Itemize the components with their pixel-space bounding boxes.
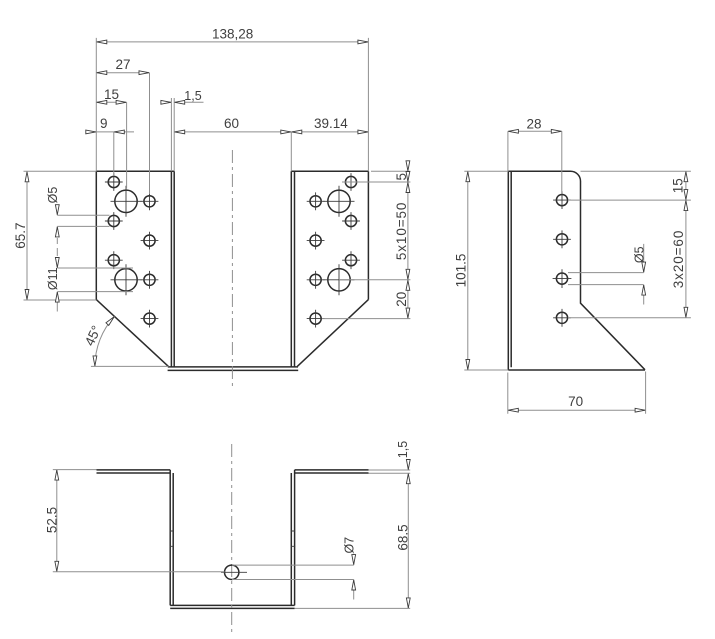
dimension 60 channel width [174, 116, 291, 134]
hole L6 [108, 255, 119, 266]
side hole 2 [556, 234, 567, 245]
svg-text:9: 9 [100, 116, 108, 131]
hole L5 [144, 235, 155, 246]
svg-text:5: 5 [394, 173, 409, 181]
dimension 68.5 [295, 473, 411, 608]
dimension 27 [96, 57, 149, 194]
bottom view centerline [231, 444, 233, 633]
bottom edge [508, 369, 645, 371]
dimension 138,28 overall width [96, 26, 368, 171]
svg-text:60: 60 [224, 116, 239, 131]
hole L4 [108, 215, 119, 226]
side view: hanger side flange [508, 171, 645, 370]
dimension 52.5 [44, 470, 224, 572]
left plate top edge [96, 170, 174, 172]
hole L8 [144, 274, 155, 285]
hole R6 [345, 255, 356, 266]
back plate outer line [507, 171, 509, 370]
front view: joist hanger face [96, 150, 368, 389]
right wall outer line [294, 470, 296, 606]
svg-text:1,5: 1,5 [396, 441, 410, 458]
channel bottom inner line [170, 607, 294, 609]
right flange bottom line [295, 472, 369, 474]
dimension 39.14 [291, 116, 368, 171]
left plate 45deg chamfer edge [96, 300, 168, 367]
hole R9 [310, 313, 321, 324]
right plate right edge [367, 171, 369, 299]
svg-text:Ø5: Ø5 [633, 246, 647, 263]
diameter label O7 [232, 537, 357, 600]
right wall inner line [290, 473, 292, 605]
hole L2 big [115, 190, 137, 212]
right channel wall outer line [294, 171, 296, 367]
left channel wall outer line [170, 171, 172, 367]
svg-text:70: 70 [568, 394, 583, 409]
left wall inner line [172, 473, 174, 605]
channel bottom outer line [170, 604, 294, 606]
side hole 4 [556, 312, 567, 323]
front view holes [105, 173, 360, 327]
svg-text:Ø5: Ø5 [46, 187, 60, 204]
dimension 65.7 left height [13, 171, 96, 300]
dimension 101.5 [454, 171, 509, 370]
svg-text:15: 15 [104, 87, 119, 102]
hole L9 [144, 313, 155, 324]
right flange top line [295, 469, 369, 471]
hole L3 [144, 196, 155, 207]
bend tick marks left wall [170, 531, 174, 546]
hole R7 big [328, 269, 350, 291]
hole L1 [108, 176, 119, 187]
channel bottom seat top line [168, 366, 298, 368]
svg-text:15: 15 [671, 178, 686, 193]
left flange top line [97, 469, 171, 471]
svg-text:138,28: 138,28 [212, 26, 253, 41]
left channel wall inner line [173, 171, 175, 367]
dimension 15 [96, 87, 126, 189]
svg-text:27: 27 [115, 57, 130, 72]
diameter label O5 front [46, 187, 110, 256]
dimension 70 [508, 372, 646, 414]
left wall outer line [169, 470, 171, 606]
diameter label O5 side [568, 244, 647, 305]
back plate inner line [510, 171, 512, 367]
dimension 1,5 wall thickness top [161, 89, 204, 171]
svg-text:20: 20 [394, 292, 409, 307]
hole R8 [310, 274, 321, 285]
svg-text:3x20=60: 3x20=60 [671, 230, 686, 288]
hole L7 big [115, 269, 137, 291]
dimension 28 [508, 117, 562, 194]
right dimension chain 15 / 3x20=60 [568, 171, 691, 318]
svg-text:Ø11: Ø11 [46, 267, 60, 290]
right plate 45deg chamfer edge [297, 300, 368, 367]
svg-text:5x10=50: 5x10=50 [394, 202, 409, 260]
svg-text:52.5: 52.5 [44, 507, 59, 533]
svg-text:1,5: 1,5 [184, 89, 201, 103]
dimension 9 [86, 116, 134, 176]
hole R5 [310, 235, 321, 246]
bend tick marks right wall [291, 531, 295, 546]
hole R2 big [328, 190, 350, 212]
vertical centerline [231, 150, 233, 389]
svg-text:101.5: 101.5 [454, 254, 469, 288]
svg-text:Ø7: Ø7 [343, 537, 357, 554]
svg-text:65.7: 65.7 [13, 222, 28, 248]
svg-text:39.14: 39.14 [314, 116, 348, 131]
diameter label O11 front [46, 258, 133, 312]
top edge with rounded corner [508, 171, 645, 370]
side hole 1 [556, 195, 567, 206]
right dimension chain 5 / 5x10=50 / 20 [322, 161, 410, 319]
svg-text:28: 28 [526, 117, 541, 132]
svg-text:68.5: 68.5 [395, 524, 410, 550]
left flange bottom line [97, 472, 171, 474]
bottom view: hanger seen from below [97, 444, 369, 633]
left plate left edge [95, 171, 97, 299]
right channel wall inner line [290, 171, 292, 367]
dimension 1,5 plate thickness right [369, 441, 411, 473]
side hole 3 [556, 273, 567, 284]
hole R3 [310, 196, 321, 207]
right plate top edge [291, 170, 368, 172]
hole O7 [225, 565, 239, 579]
channel bottom seat bottom line [168, 369, 299, 371]
angle dimension 45deg [82, 315, 169, 366]
hole R1 [345, 176, 356, 187]
hole R4 [345, 215, 356, 226]
